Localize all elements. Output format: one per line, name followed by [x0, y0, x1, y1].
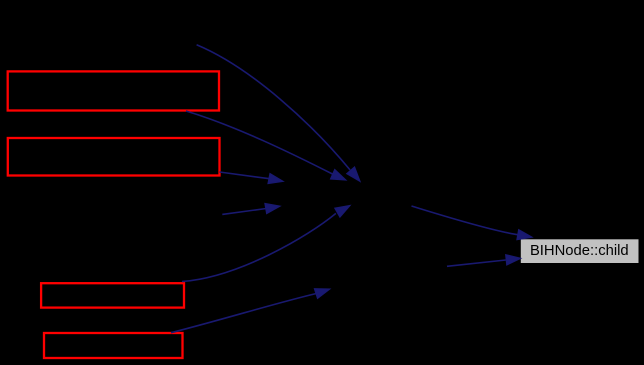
node: caller box 3 (red, truncated label): [41, 283, 184, 307]
edge h: box4 -> lower invisible node: [171, 289, 330, 333]
node: caller box 1 (red, truncated label): [8, 71, 219, 110]
node: caller box 2 (red, truncated label): [8, 138, 220, 176]
edge a: top invisible node -> center node (curved): [197, 45, 361, 182]
edge g: box3 -> center node (curved): [182, 205, 350, 281]
node: caller box 4 (red, truncated label): [44, 333, 183, 358]
node: BIHNode::child (current node, grey fill): [521, 239, 639, 263]
svg-text:BIHNode::child: BIHNode::child: [530, 243, 629, 259]
edge d: lower-left invisible node -> center node (short): [222, 203, 280, 214]
edge e: center node -> BIHNode::child: [412, 206, 533, 240]
edge c: box2 -> center node (short): [220, 172, 284, 184]
edge f: lower invisible node -> BIHNode::child: [447, 255, 521, 267]
edge b: box1 -> center node: [186, 111, 346, 180]
